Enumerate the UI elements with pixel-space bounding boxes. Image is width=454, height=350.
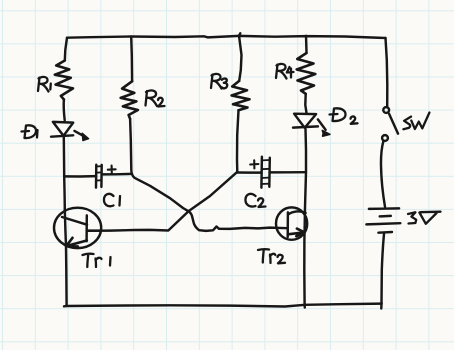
label D1	[22, 125, 38, 138]
label Tr1	[83, 254, 111, 267]
wire switch to battery	[381, 141, 385, 207]
wire rail to R2	[130, 37, 133, 82]
wire left branch top (rail to R1)	[65, 38, 67, 61]
transistor Tr1	[54, 208, 101, 248]
label R1	[38, 77, 51, 92]
wire through Tr1 circle down to bottom rail	[65, 209, 67, 306]
wire top supply rail	[67, 36, 386, 38]
label C1	[104, 194, 120, 206]
wire bottom rail	[64, 304, 382, 307]
wire R1 to D1	[64, 100, 65, 121]
label R3	[211, 74, 227, 89]
label 3V	[408, 212, 441, 224]
label C2	[245, 194, 265, 207]
label Tr2	[258, 249, 285, 263]
resistor R2	[121, 81, 138, 119]
wire D2 to C2 junction down through Tr2 to bottom rail	[304, 129, 306, 308]
capacitor C1	[64, 165, 131, 188]
wire R3 to C2 junction	[237, 110, 239, 172]
battery 3V	[366, 208, 400, 232]
wire Tr1 base to R3/C2 junction (diagonal crossing)	[87, 173, 237, 231]
wire rail to R3	[239, 33, 242, 81]
LED D2	[293, 114, 330, 137]
transistor Tr2	[276, 207, 307, 239]
wire R2 to C1 junction then diagonal to Tr2 base	[130, 119, 287, 231]
label R2	[146, 90, 165, 106]
label SW	[403, 113, 429, 130]
wire battery to bottom rail	[381, 234, 384, 309]
wire R4 to D2	[305, 94, 306, 113]
switch SW	[382, 107, 398, 141]
resistor R1	[55, 61, 73, 100]
label R4	[276, 64, 294, 79]
wire D1 to C1 junction to Tr1 collector region	[64, 137, 65, 209]
wire rail corner down to switch	[386, 38, 388, 107]
LED D1	[51, 122, 89, 141]
label D2	[330, 108, 358, 123]
resistor R4	[297, 53, 316, 94]
resistor R3	[232, 81, 250, 110]
capacitor C2	[237, 157, 305, 188]
wire rail to R4	[305, 36, 308, 53]
